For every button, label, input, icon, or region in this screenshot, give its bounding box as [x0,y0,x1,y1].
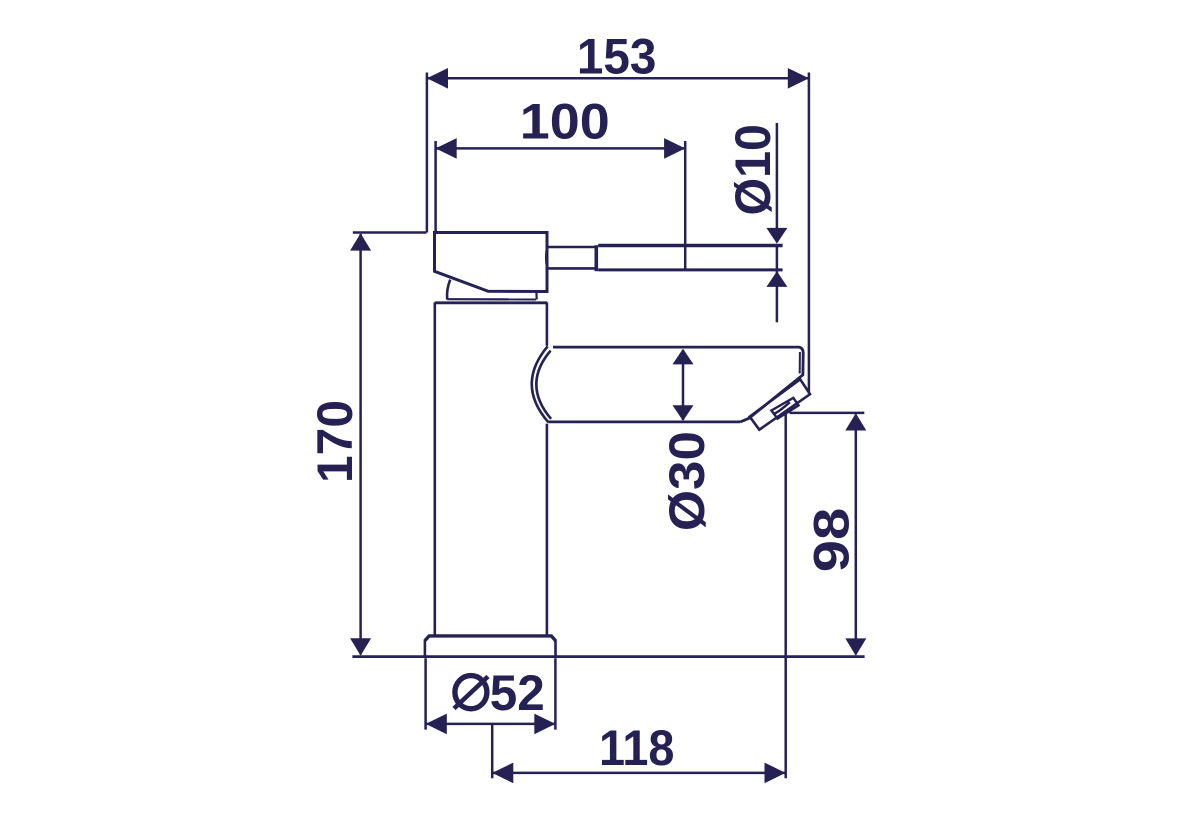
lever rod segment 1 bottom [547,267,595,270]
cartridge neck right tick [535,292,537,299]
lever rod root fillet [546,247,547,268]
lever rod segment 2 bottom [598,268,782,271]
dim D52 extension right [554,658,557,729]
arrow 100 right [664,138,685,159]
dim 100 extension left [434,141,437,232]
main body right edge lower [546,424,549,636]
arrow 118 right [765,763,786,784]
dim 170 extension top [353,231,427,234]
dim D10 shaft mid [776,247,779,269]
label D52 diameter symbol [454,676,488,709]
spout top line [553,347,803,422]
arrow D10 up [766,271,787,287]
arrow 153 right [788,68,809,89]
lever rod segment 2 top [598,244,782,247]
arrow D30 down [673,405,694,421]
aerator housing box [750,379,810,429]
dim 98-118 extension vertical [784,414,787,779]
svg-text:Ø30: Ø30 [658,431,715,531]
arrow 118 left [492,763,513,784]
base flange right edge [554,640,557,656]
dim 153 extension right [808,73,811,394]
dim D10 shaft lower [776,271,779,322]
spout right edge inner line [799,352,801,374]
svg-text:Ø10: Ø10 [724,124,781,216]
arrow 170 up [350,233,371,250]
svg-text:170: 170 [306,400,363,483]
dim 118 line [492,772,785,775]
dim 100 line [436,147,686,150]
arrow 100 left [436,138,457,159]
dim 153 line [427,77,809,80]
arrow D52 left [426,714,447,735]
cartridge neck bottom line [447,298,536,300]
arrow D30 up [673,349,694,365]
main body left edge [433,302,436,636]
base flange top line [425,636,556,641]
base flange left edge [424,640,427,656]
lever rod segment 1 top [547,246,595,249]
cartridge neck left arc [447,280,450,300]
arrow D10 down [766,228,787,244]
arrow 98 down [845,638,866,655]
svg-text:100: 100 [520,92,610,149]
svg-text:118: 118 [599,719,675,776]
dim 98 line [855,415,858,655]
spout root inner arc [536,351,551,419]
arrow 170 down [350,638,371,655]
aerator slot arc [774,402,790,414]
arrow 153 left [427,68,448,89]
arrow 98 up [845,413,866,430]
dim 153 extension left [426,73,429,233]
main body right edge upper [546,302,549,345]
dim D10 shaft upper [776,123,779,242]
dim 118 extension center [491,725,494,779]
svg-text:98: 98 [802,508,859,573]
dim D52 extension left [424,658,427,729]
svg-text:52: 52 [490,664,545,721]
lever rod joint bar [594,245,598,271]
dim 100 extension right [684,141,687,270]
ground line [352,655,864,658]
arrow D52 right [534,714,555,735]
aerator outlet slot [771,398,798,419]
dim D30 shaft [682,350,685,420]
svg-text:153: 153 [577,28,657,85]
spout bottom line [548,420,740,423]
dim 98 extension top [790,412,865,415]
dim D52 line [427,723,555,726]
handle body block [435,233,548,292]
spout root outer arc [532,346,549,422]
dim 170 line [359,234,362,655]
main body top line [435,301,548,304]
